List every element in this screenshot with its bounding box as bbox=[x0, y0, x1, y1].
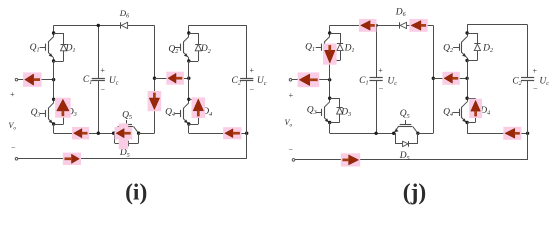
capacitor C2 (i) bbox=[240, 79, 253, 81]
current arrow: Q4-C2 wire left (i) bbox=[223, 127, 241, 139]
diode D4 (j) bbox=[467, 98, 478, 122]
label: C2 (i) bbox=[232, 76, 241, 87]
current arrow: up through D4 (j) bbox=[469, 99, 482, 118]
wire: mid leg (j) bbox=[432, 25, 435, 133]
wire: left leg mid (i) bbox=[53, 61, 55, 99]
capacitor C1 (i) bbox=[92, 79, 105, 81]
label: Uc C1 (j) bbox=[387, 76, 397, 87]
svg-text:(j): (j) bbox=[403, 180, 426, 206]
current arrow: down mid leg (i) bbox=[148, 91, 162, 111]
label: + C2 (i) bbox=[250, 66, 255, 75]
wire: bottom rail (i) bbox=[18, 158, 247, 160]
wire: left leg upper (i) bbox=[53, 25, 55, 33]
wire: right leg upper (j) bbox=[467, 25, 469, 33]
wire: top rail left of D6 (i) bbox=[54, 25, 121, 27]
label: Q5 (j) bbox=[400, 109, 410, 120]
terminal: output + (j) bbox=[289, 79, 292, 82]
diode D3 (j) bbox=[330, 98, 343, 122]
wire: top rail right of D6 (j) bbox=[407, 25, 434, 27]
label: D4 (j) bbox=[479, 106, 490, 117]
caption (j) bbox=[403, 180, 426, 206]
terminal: output − (i) bbox=[15, 158, 18, 161]
wire: right rail (i) bbox=[189, 25, 247, 27]
diode D1 (j) bbox=[330, 33, 343, 61]
transistor Q5 (j) bbox=[392, 120, 420, 135]
label: C1 (i) bbox=[83, 75, 92, 86]
label: C2 (j) bbox=[512, 76, 521, 87]
capacitor C1 leg (i) bbox=[97, 24, 100, 135]
current arrow: wire Q3-C1 left (i) bbox=[72, 127, 89, 139]
terminal: output − (j) bbox=[292, 159, 295, 162]
label: − C1 (j) bbox=[379, 84, 384, 93]
svg-text:−: − bbox=[101, 86, 106, 95]
svg-text:−: − bbox=[250, 85, 255, 94]
label: Q4 (j) bbox=[443, 107, 453, 118]
label: Uc C2 (i) bbox=[257, 76, 267, 87]
current arrow: top rail left A (j) bbox=[359, 19, 376, 32]
current arrow: output wire left (i) bbox=[23, 72, 41, 86]
wire: mid leg (i) bbox=[153, 25, 156, 133]
svg-text:+: + bbox=[289, 91, 294, 100]
svg-text:+: + bbox=[10, 90, 15, 99]
label: D5 (i) bbox=[119, 148, 130, 159]
label: − output (i) bbox=[11, 143, 16, 152]
label: Q2 (j) bbox=[443, 43, 453, 54]
svg-text:+: + bbox=[533, 67, 538, 76]
svg-text:−: − bbox=[379, 84, 384, 93]
diode D2 (i) bbox=[189, 33, 202, 62]
diode D3 (i) bbox=[54, 99, 67, 124]
label: − C2 (i) bbox=[250, 85, 255, 94]
current arrow: up through D3 (i) bbox=[55, 98, 71, 118]
label: D1 (j) bbox=[344, 43, 355, 54]
wire: left leg mid (j) bbox=[329, 61, 331, 99]
current arrow: Q4-C2 wire left (j) bbox=[503, 127, 521, 140]
label: Uc C1 (i) bbox=[109, 76, 119, 87]
label: + C1 (i) bbox=[100, 66, 105, 75]
label: Q1 (i) bbox=[30, 43, 40, 54]
svg-text:(i): (i) bbox=[125, 180, 147, 206]
wire: right rail (j) bbox=[467, 24, 527, 26]
current arrow: up through D4 (i) bbox=[192, 97, 206, 118]
wire: left leg lower corner (i) bbox=[54, 124, 114, 134]
capacitor C2 leg (i) bbox=[246, 25, 248, 159]
label: − C2 (j) bbox=[533, 84, 538, 93]
current arrow: down through Q1 (j) bbox=[323, 44, 337, 65]
wire: left leg upper (j) bbox=[329, 25, 331, 33]
diode D6 (j) bbox=[400, 22, 407, 28]
wire: Q5 to mid leg (i) bbox=[139, 133, 155, 135]
wire: right leg lower corner (j) bbox=[467, 123, 529, 136]
diode D5 (i) bbox=[115, 133, 139, 146]
svg-text:−: − bbox=[533, 84, 538, 93]
transistor Q1 (j) bbox=[316, 31, 332, 62]
current arrow: mid-to-Q2 wire left (i) bbox=[166, 72, 184, 85]
label: Vo (j) bbox=[284, 118, 292, 129]
label: D2 (i) bbox=[200, 44, 211, 55]
wire: Q5 to mid leg (j) bbox=[418, 133, 433, 135]
current arrow: top rail left B (j) bbox=[409, 19, 427, 32]
label: D3 (i) bbox=[66, 107, 77, 118]
current arrow: mid-to-Q2 wire left (j) bbox=[442, 72, 459, 85]
diode D1 (i) bbox=[54, 33, 67, 62]
current arrow: output wire left (j) bbox=[298, 72, 320, 87]
wire: right leg mid (i) bbox=[188, 61, 190, 99]
transistor Q2 (j) bbox=[453, 31, 469, 62]
svg-text:−: − bbox=[289, 145, 294, 154]
current arrow: through Q5 left (i) bbox=[115, 123, 133, 149]
transistor Q2 (i) bbox=[175, 31, 191, 62]
label: + output (i) bbox=[10, 90, 15, 99]
label: Vo (i) bbox=[8, 121, 16, 132]
label: Q2 (i) bbox=[168, 44, 178, 55]
diode D2 (j) bbox=[467, 33, 480, 61]
label: Q5 (i) bbox=[122, 111, 132, 122]
label: + C2 (j) bbox=[533, 67, 538, 76]
wire: left leg lower corner (j) bbox=[330, 123, 394, 134]
label: Q1 (j) bbox=[305, 43, 315, 54]
label: D6 (i) bbox=[119, 8, 129, 20]
wire: bottom rail (j) bbox=[295, 159, 528, 161]
transistor Q3 (j) bbox=[316, 97, 332, 125]
label: D6 (j) bbox=[395, 8, 406, 19]
diode D4 (i) bbox=[189, 99, 202, 124]
label: Q4 (i) bbox=[165, 108, 175, 119]
current arrow: bottom rail right (i) bbox=[63, 153, 81, 165]
label: Q3 (i) bbox=[31, 108, 41, 119]
capacitor C1 (j) bbox=[370, 78, 383, 81]
transistor Q4 (j) bbox=[453, 97, 469, 125]
label: C1 (j) bbox=[359, 76, 368, 87]
svg-text:+: + bbox=[378, 66, 383, 75]
wire: right leg lower corner (i) bbox=[189, 124, 249, 135]
wire: right leg upper (i) bbox=[188, 25, 190, 33]
label: − output (j) bbox=[289, 145, 294, 154]
transistor Q5 (i) bbox=[112, 120, 140, 135]
caption (i) bbox=[125, 180, 147, 206]
label: − C1 (i) bbox=[101, 86, 106, 95]
transistor Q1 (i) bbox=[40, 31, 56, 62]
wire: mid to Q2 leg (j) bbox=[433, 77, 469, 80]
transistor Q4 (i) bbox=[175, 98, 191, 126]
capacitor C2 (j) bbox=[521, 78, 534, 81]
svg-text:+: + bbox=[250, 66, 255, 75]
label: D4 (i) bbox=[201, 107, 212, 118]
current arrow: bottom rail right (j) bbox=[341, 153, 360, 166]
label: Q3 (j) bbox=[307, 106, 317, 117]
wire: top rail left of D6 (j) bbox=[330, 25, 400, 27]
wire: output + lead (j) bbox=[292, 78, 332, 81]
label: D5 (j) bbox=[399, 151, 410, 162]
label: D1 (i) bbox=[65, 44, 76, 55]
diode D5 (j) bbox=[395, 133, 418, 146]
wire: right leg mid (j) bbox=[467, 61, 469, 99]
wire: output + lead (i) bbox=[18, 78, 55, 81]
label: + output (j) bbox=[289, 91, 294, 100]
terminal: output + (i) bbox=[15, 78, 18, 81]
label: Uc C2 (j) bbox=[539, 77, 549, 88]
wire: top rail right of D6 (i) bbox=[128, 25, 155, 27]
diode D6 (i) bbox=[121, 22, 128, 28]
transistor Q3 (i) bbox=[40, 98, 56, 126]
label: + C1 (j) bbox=[378, 66, 383, 75]
wire: mid to Q2 leg (i) bbox=[155, 77, 191, 80]
svg-text:−: − bbox=[11, 143, 16, 152]
capacitor C2 leg (j) bbox=[527, 25, 529, 160]
label: D2 (j) bbox=[482, 44, 493, 55]
label: D3 (j) bbox=[340, 108, 351, 119]
svg-text:+: + bbox=[100, 66, 105, 75]
capacitor C1 leg (j) bbox=[374, 24, 377, 135]
